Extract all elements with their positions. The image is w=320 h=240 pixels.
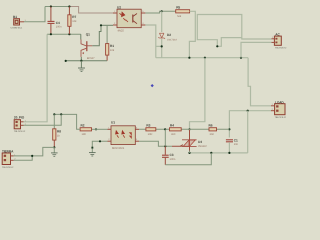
wire HL2 horizontal rail (156, 57, 248, 59)
capacitor C1 (snubber) (226, 139, 239, 153)
resistor R3 (146, 124, 156, 136)
resistor R2 (80, 124, 91, 136)
node R7 top junction (68, 5, 70, 7)
node TIERRA tie (31, 155, 33, 157)
svg-text:TBLOCK-I2: TBLOCK-I2 (2, 166, 14, 169)
node R8 bottom / TIERRA (53, 146, 55, 148)
wire AC pin2 (241, 42, 272, 57)
node R8 top (53, 113, 55, 115)
capacitor C4 (48, 7, 63, 35)
svg-text:10R: 10R (148, 133, 153, 136)
svg-text:C3: C3 (170, 153, 174, 157)
node knot (216, 45, 218, 47)
node pin2 riser (60, 113, 62, 115)
node C4 top junction (50, 5, 52, 7)
node rail3 left end (65, 60, 67, 62)
wire long vertical to 20_PIO pin1 (24, 34, 48, 122)
wire C3 return (165, 153, 211, 165)
svg-text:R3: R3 (146, 124, 150, 128)
svg-text:TBLOCK-I2: TBLOCK-I2 (275, 116, 287, 119)
wire U1 pin2 to ground (92, 141, 107, 147)
wire LOAD pin2 to snubber (229, 111, 271, 138)
wire rail4 bottom (190, 152, 248, 154)
node U1 pin1 input (95, 128, 97, 130)
node rail2/R7 (68, 33, 70, 35)
svg-text:U2: U2 (117, 5, 121, 9)
wire zener bottom link (156, 46, 162, 57)
opto-triac U1 (MOC3021) (108, 120, 140, 150)
svg-text:BC547: BC547 (87, 57, 95, 60)
node rail5/C1 branch (228, 128, 230, 130)
terminal AC (TBLOCK-I2) (272, 33, 288, 50)
svg-text:R1: R1 (110, 44, 114, 48)
wire knot stub (217, 38, 242, 47)
resistor R6 (209, 124, 217, 136)
wire 20_PIO pin2 riser (24, 114, 62, 125)
node snubber top (247, 110, 249, 112)
node HL2/R5 branch (188, 57, 190, 59)
wire Q1 emitter (80, 57, 82, 61)
wire maroon to U2 pin1 (69, 7, 113, 14)
node rail4/C1 (228, 152, 230, 154)
wire gate from U1 pin4 (139, 141, 172, 146)
triac U4 (180, 129, 207, 153)
connector TIERRA (TBLOCK-I2) (2, 149, 16, 169)
node rail4/C3 return (210, 152, 212, 154)
node HL2/triac branch (204, 57, 206, 59)
svg-text:R7: R7 (72, 15, 76, 19)
svg-text:U1: U1 (111, 120, 115, 124)
svg-text:TBLOCK-I2: TBLOCK-I2 (275, 47, 287, 50)
svg-text:360: 360 (210, 133, 215, 136)
svg-text:C4: C4 (56, 21, 60, 25)
svg-text:U4: U4 (198, 140, 202, 144)
wire snubber right vertical (247, 111, 249, 153)
svg-text:100n: 100n (170, 158, 176, 161)
capacitor C3 (162, 146, 176, 165)
ground (R8 / TIERRA) (51, 147, 58, 156)
wire TIERRA pins tie (14, 147, 55, 160)
optocoupler U2 (4N25) (113, 5, 145, 32)
svg-text:4N25: 4N25 (118, 30, 125, 33)
resistor R1 (106, 44, 115, 61)
resistor R4 (170, 124, 182, 136)
wire B1 to top rail (24, 7, 45, 22)
node triac top / rail5 (188, 128, 190, 130)
svg-text:TBLOCK-I2: TBLOCK-I2 (14, 130, 26, 133)
node U1 pin2 wire (99, 140, 101, 142)
wire U2 pin5 to R5 (145, 11, 175, 13)
resistor R5 (176, 6, 190, 18)
node green square (91, 147, 93, 149)
wire top rail (45, 6, 69, 8)
svg-text:2N6342: 2N6342 (198, 145, 207, 148)
ground (U1 pin2) (89, 149, 96, 156)
wire U2 pin4 down (145, 25, 155, 58)
wire 20_PIO branch to R2 (54, 114, 80, 129)
wire R3/R4 node down to gate (164, 129, 166, 146)
ground (Q1 emitter) (78, 61, 85, 72)
resistor R7 (68, 7, 77, 35)
svg-text:10n: 10n (234, 143, 239, 146)
svg-text:56k: 56k (177, 15, 182, 18)
diode D2 (zener) (158, 11, 177, 46)
svg-text:R8: R8 (57, 129, 61, 133)
wire AC pin1 loop (197, 15, 271, 47)
svg-text:10k: 10k (110, 49, 115, 52)
wire rail3 (emitter rail) (66, 60, 108, 62)
svg-text:1N4734A: 1N4734A (167, 39, 177, 42)
connector B1 (CONN-SIL1, top-left) (11, 15, 27, 30)
node HL2/AC branch (240, 57, 242, 59)
node gate/C3 (164, 145, 166, 147)
connector 20_PIO (TBLOCK-I2) (14, 116, 27, 133)
wire U2 pin2 row (101, 24, 113, 26)
svg-text:360: 360 (171, 133, 176, 136)
svg-text:R6: R6 (209, 124, 213, 128)
node rail4/triac (188, 152, 190, 154)
resistor R8 (53, 114, 62, 147)
svg-text:100n: 100n (56, 26, 62, 29)
node U2 pin2 (100, 24, 102, 26)
node rail5 R3/R4 (164, 128, 166, 130)
svg-text:R4: R4 (170, 124, 174, 128)
wire R2 to U1 pin1 (92, 128, 108, 130)
wire R5 right to HL2 (189, 11, 195, 57)
node zener bottom (161, 45, 163, 47)
node D2 top (161, 10, 163, 12)
transistor Q1 (BC547, mirrored NPN) (81, 33, 95, 61)
svg-text:C1: C1 (234, 139, 238, 143)
svg-text:R2: R2 (81, 124, 85, 128)
wire R1 top lead (106, 25, 108, 43)
svg-text:10k: 10k (72, 20, 77, 23)
svg-text:180: 180 (82, 133, 87, 136)
wire rail2 (zero-cross net) (47, 33, 81, 35)
wire HL2 to LOAD pin1 (248, 58, 271, 106)
node origin marker (151, 84, 154, 87)
svg-text:D2: D2 (167, 33, 171, 37)
svg-text:20_PIO: 20_PIO (14, 116, 25, 120)
svg-text:CONN-SIL1: CONN-SIL1 (11, 27, 23, 30)
svg-text:R5: R5 (176, 6, 180, 10)
svg-text:MOC3021: MOC3021 (112, 147, 125, 150)
wire rail5 resistor row (139, 128, 229, 130)
wire HL2 drop to triac (190, 58, 205, 130)
wire Q1 base to U2 pin2 node (92, 25, 101, 46)
node rail3 emitter/ground (80, 60, 82, 62)
terminal LOAD (TBLOCK-I2) (271, 100, 287, 119)
svg-text:Q1: Q1 (86, 33, 90, 37)
wire gate red segment (172, 145, 183, 147)
node rail2/C4 (50, 33, 52, 35)
